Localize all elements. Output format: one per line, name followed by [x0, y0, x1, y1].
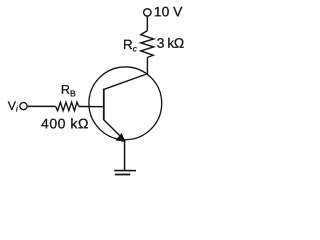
svg-text:Rc: Rc: [123, 37, 137, 53]
svg-text:Vi: Vi: [8, 99, 19, 114]
input terminal Vi: [20, 102, 27, 109]
wire RB to base: [79, 105, 104, 107]
wire Vi to RB: [27, 105, 55, 107]
emitter arrowhead: [116, 134, 125, 142]
resistor Rc: [141, 31, 154, 58]
wire emitter to ground: [124, 140, 126, 170]
transistor Q1 circle: [89, 67, 162, 140]
ground: [114, 170, 136, 172]
emitter lead: [104, 120, 124, 140]
wire supply to Rc: [146, 16, 148, 30]
supply terminal (10 V): [144, 9, 151, 16]
svg-text:400 kΩ: 400 kΩ: [41, 115, 89, 131]
svg-text:10 V: 10 V: [154, 4, 183, 19]
collector lead: [104, 74, 148, 90]
resistor RB: [56, 102, 79, 111]
svg-text:3 kΩ: 3 kΩ: [157, 36, 184, 51]
base bar: [103, 89, 105, 121]
svg-text:RB: RB: [61, 83, 76, 99]
wire Rc to collector: [146, 58, 148, 74]
